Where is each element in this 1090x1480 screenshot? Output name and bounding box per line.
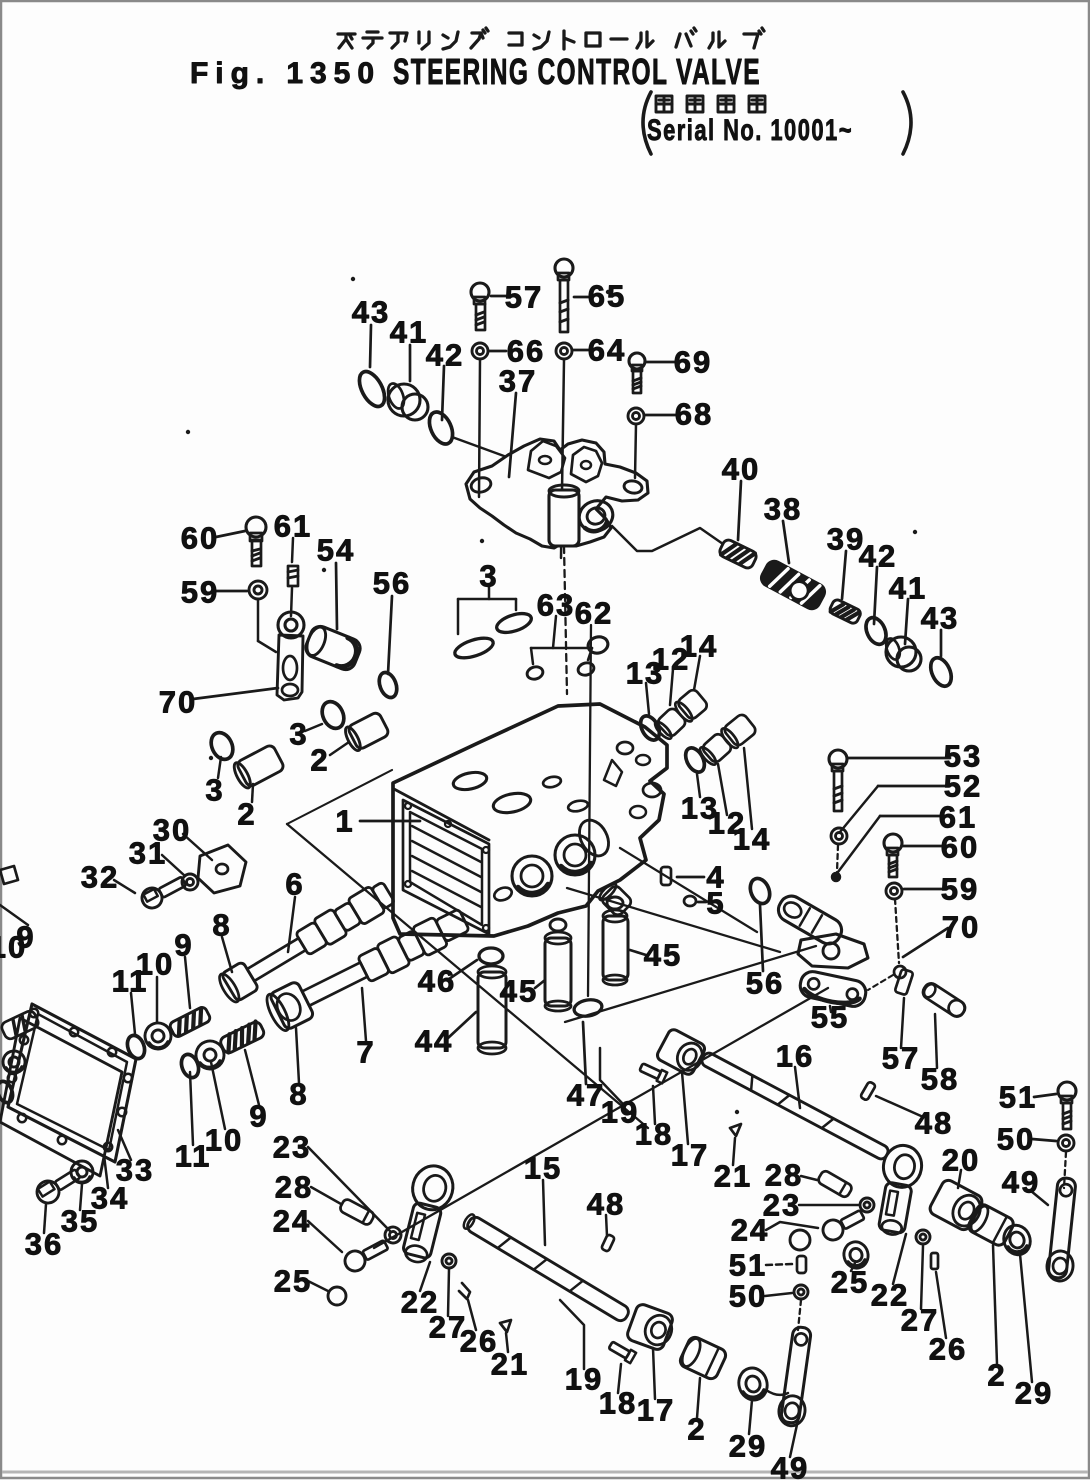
svg-text:51: 51 — [999, 1080, 1037, 1115]
svg-text:5: 5 — [706, 886, 725, 921]
svg-text:47: 47 — [567, 1078, 605, 1113]
svg-text:29: 29 — [1015, 1376, 1053, 1411]
svg-text:49: 49 — [1002, 1165, 1040, 1200]
svg-text:2: 2 — [987, 1358, 1006, 1393]
svg-text:51: 51 — [729, 1248, 767, 1283]
svg-text:59: 59 — [181, 575, 219, 610]
svg-text:21: 21 — [714, 1159, 752, 1194]
svg-text:57: 57 — [882, 1041, 920, 1076]
svg-text:24: 24 — [273, 1204, 311, 1239]
svg-text:70: 70 — [159, 685, 197, 720]
svg-text:18: 18 — [635, 1117, 673, 1152]
svg-text:29: 29 — [729, 1429, 767, 1464]
svg-text:15: 15 — [524, 1151, 562, 1186]
svg-text:35: 35 — [61, 1204, 99, 1239]
svg-text:32: 32 — [81, 860, 119, 895]
svg-text:70: 70 — [942, 910, 980, 945]
svg-text:18: 18 — [599, 1386, 637, 1421]
svg-text:60: 60 — [181, 521, 219, 556]
svg-text:68: 68 — [675, 397, 713, 432]
svg-text:50: 50 — [997, 1122, 1035, 1157]
svg-text:11: 11 — [112, 964, 149, 999]
svg-text:59: 59 — [941, 872, 979, 907]
svg-text:24: 24 — [731, 1213, 769, 1248]
svg-text:40: 40 — [722, 452, 760, 487]
svg-text:56: 56 — [746, 966, 784, 1001]
svg-text:44: 44 — [415, 1024, 453, 1059]
svg-text:55: 55 — [811, 1000, 849, 1035]
svg-text:69: 69 — [674, 345, 712, 380]
svg-text:45: 45 — [500, 974, 538, 1009]
svg-text:2: 2 — [237, 797, 256, 832]
svg-text:23: 23 — [273, 1130, 311, 1165]
svg-text:62: 62 — [575, 596, 613, 631]
svg-text:46: 46 — [418, 964, 456, 999]
svg-text:11: 11 — [175, 1139, 212, 1174]
svg-text:54: 54 — [317, 533, 355, 568]
svg-text:20: 20 — [942, 1143, 980, 1178]
svg-text:3: 3 — [289, 717, 308, 752]
svg-text:3: 3 — [479, 559, 498, 594]
svg-text:8: 8 — [289, 1077, 308, 1112]
svg-text:50: 50 — [729, 1279, 767, 1314]
svg-text:48: 48 — [587, 1187, 625, 1222]
svg-text:43: 43 — [352, 295, 390, 330]
svg-text:9: 9 — [174, 928, 193, 963]
svg-text:52: 52 — [944, 769, 982, 804]
svg-text:2: 2 — [310, 743, 329, 778]
svg-text:37: 37 — [499, 364, 537, 399]
svg-text:STEERING CONTROL VALVE: STEERING CONTROL VALVE — [393, 51, 761, 92]
svg-text:14: 14 — [680, 629, 718, 664]
svg-text:19: 19 — [601, 1095, 639, 1130]
svg-text:17: 17 — [671, 1138, 709, 1173]
svg-text:42: 42 — [859, 539, 897, 574]
svg-text:10: 10 — [0, 930, 27, 965]
svg-text:56: 56 — [373, 566, 411, 601]
svg-text:63: 63 — [537, 588, 575, 623]
svg-text:21: 21 — [491, 1347, 529, 1382]
svg-text:25: 25 — [831, 1265, 869, 1300]
svg-text:61: 61 — [274, 509, 312, 544]
svg-text:Serial No. 10001~: Serial No. 10001~ — [647, 114, 853, 147]
svg-text:58: 58 — [921, 1062, 959, 1097]
svg-text:45: 45 — [644, 938, 682, 973]
svg-text:38: 38 — [764, 492, 802, 527]
svg-text:25: 25 — [274, 1264, 312, 1299]
svg-text:26: 26 — [929, 1332, 967, 1367]
svg-text:31: 31 — [129, 836, 167, 871]
svg-text:60: 60 — [941, 830, 979, 865]
svg-text:28: 28 — [275, 1170, 313, 1205]
svg-text:57: 57 — [505, 280, 543, 315]
svg-text:43: 43 — [921, 601, 959, 636]
svg-text:1: 1 — [335, 804, 354, 839]
svg-text:65: 65 — [588, 279, 626, 314]
svg-text:14: 14 — [733, 822, 771, 857]
svg-text:8: 8 — [212, 908, 231, 943]
svg-text:9: 9 — [249, 1099, 268, 1134]
svg-text:42: 42 — [426, 338, 464, 373]
svg-text:7: 7 — [356, 1035, 375, 1070]
svg-text:49: 49 — [771, 1451, 809, 1480]
svg-text:17: 17 — [637, 1393, 675, 1428]
svg-text:3: 3 — [205, 773, 224, 808]
svg-text:41: 41 — [390, 315, 428, 350]
svg-text:6: 6 — [285, 867, 304, 902]
svg-text:2: 2 — [687, 1412, 706, 1447]
svg-text:16: 16 — [776, 1039, 814, 1074]
svg-text:19: 19 — [565, 1362, 603, 1397]
svg-text:48: 48 — [915, 1106, 953, 1141]
svg-text:64: 64 — [588, 333, 626, 368]
svg-text:36: 36 — [25, 1227, 63, 1262]
